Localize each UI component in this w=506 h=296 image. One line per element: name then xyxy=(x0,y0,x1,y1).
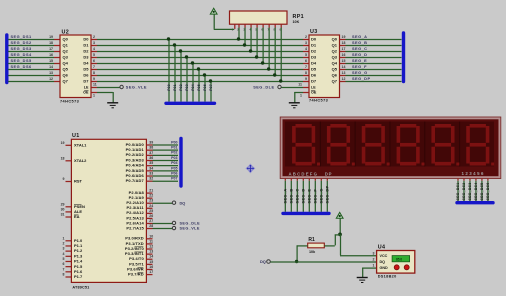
latch U3 74HC573 xyxy=(309,29,340,103)
svg-text:SEG_E: SEG_E xyxy=(306,189,311,204)
svg-text:SEG_DS5: SEG_DS5 xyxy=(480,183,484,201)
svg-text:RST: RST xyxy=(74,179,83,184)
svg-text:SEG_DS2: SEG_DS2 xyxy=(462,183,466,201)
svg-text:10k: 10k xyxy=(309,250,316,254)
svg-text:32: 32 xyxy=(149,177,153,181)
svg-text:D6: D6 xyxy=(83,73,89,78)
svg-text:8: 8 xyxy=(305,71,307,75)
wire display pin SEG_E down to bus xyxy=(306,178,311,212)
bus P0 vertical bus (right of U1) xyxy=(179,139,182,187)
svg-text:26: 26 xyxy=(149,214,153,218)
pin P1.0 (1) U1 xyxy=(63,236,83,243)
wire bus to U2 pin 13 xyxy=(8,71,60,76)
svg-text:30: 30 xyxy=(61,207,65,211)
svg-text:P05: P05 xyxy=(171,166,177,170)
pin P2.2 (23) U1 xyxy=(126,199,153,205)
svg-text:22: 22 xyxy=(149,194,153,198)
svg-text:24: 24 xyxy=(149,204,153,208)
svg-text:4: 4 xyxy=(63,252,65,256)
svg-text:Q3: Q3 xyxy=(332,55,338,60)
terminal SEG_DLE (U3) xyxy=(253,84,281,89)
svg-text:6: 6 xyxy=(305,59,307,63)
wire U3 pin 12 net SEG_DP to bus xyxy=(340,76,402,82)
svg-text:AT89C51: AT89C51 xyxy=(72,285,89,289)
wire U1 P0.3 pin 36 net P03 to bus xyxy=(126,156,178,163)
svg-text:P06: P06 xyxy=(171,171,177,175)
svg-text:12: 12 xyxy=(49,77,53,81)
wire P01 vertical from net D1 down to bus xyxy=(173,43,177,101)
bus SEG_DS vertical bus (left) xyxy=(5,35,8,83)
svg-text:D3: D3 xyxy=(83,55,89,60)
svg-text:SEG_DP: SEG_DP xyxy=(324,185,329,203)
wire U1 P0.7 pin 32 net P07 to bus xyxy=(126,177,178,184)
wire display digit pin 6 down to bus xyxy=(486,178,490,201)
svg-text:11: 11 xyxy=(93,83,97,87)
svg-text:SEG_DS6: SEG_DS6 xyxy=(11,64,32,69)
node junction VCC/R1/U4 xyxy=(338,233,342,237)
wire U3 pin 18 net SEG_B to bus xyxy=(340,40,402,46)
svg-text:1: 1 xyxy=(300,93,302,97)
svg-text:D1: D1 xyxy=(311,43,317,48)
svg-text:9: 9 xyxy=(305,77,307,81)
resistor pack RP1 10K xyxy=(230,11,304,32)
wire net D6 U2 pin 8 to U3 xyxy=(91,71,309,76)
svg-text:SEG_B: SEG_B xyxy=(288,188,293,203)
wire P04 vertical from net D4 down to bus xyxy=(191,61,195,101)
wire display pin SEG_G down to bus xyxy=(318,178,323,212)
wire U1 P0.0 pin 39 net P00 to bus xyxy=(126,140,178,147)
wire U3 pin 15 net SEG_E to bus xyxy=(340,58,402,64)
wire P06 vertical from net D6 down to bus xyxy=(203,73,207,101)
svg-text:P03: P03 xyxy=(171,156,177,160)
svg-text:8: 8 xyxy=(63,272,65,276)
svg-text:U3: U3 xyxy=(310,29,318,35)
svg-text:1: 1 xyxy=(63,236,65,240)
wire VCC node down to U4 VCC pin xyxy=(340,234,377,255)
wire RP1 pin 8 pull-up to net D6 xyxy=(273,24,276,77)
cursor crosshair (editor pointer) xyxy=(246,164,255,173)
svg-text:15: 15 xyxy=(49,59,53,63)
wire net D3 U2 pin 5 to U3 xyxy=(91,53,309,58)
svg-text:13: 13 xyxy=(49,71,53,75)
svg-text:P01: P01 xyxy=(173,84,177,91)
svg-text:17: 17 xyxy=(149,270,153,274)
svg-text:U4: U4 xyxy=(378,245,386,251)
svg-text:34: 34 xyxy=(149,166,153,170)
svg-text:XTAL1: XTAL1 xyxy=(74,142,87,147)
svg-text:2: 2 xyxy=(305,35,307,39)
svg-text:U2: U2 xyxy=(62,30,70,36)
svg-text:P00: P00 xyxy=(167,84,171,91)
wire net D5 U2 pin 7 to U3 xyxy=(91,65,309,70)
svg-text:P03: P03 xyxy=(185,84,189,91)
svg-text:P04: P04 xyxy=(191,84,195,91)
svg-text:D5: D5 xyxy=(311,67,317,72)
wire U1 P2.7 to SEG_VLE terminal xyxy=(153,228,173,230)
pin P3.5/T1 (15) U1 xyxy=(129,260,153,266)
bus below display segment pins xyxy=(283,212,329,215)
pin P3.6/WR (16) U1 xyxy=(127,265,153,271)
wire bus to U2 pin 18 net SEG_DS2 xyxy=(8,40,60,46)
svg-text:D2: D2 xyxy=(311,49,317,54)
pin P1.6 (7) U1 xyxy=(63,267,83,274)
svg-text:P02: P02 xyxy=(171,151,177,155)
svg-text:18: 18 xyxy=(61,156,65,160)
pin P1.5 (6) U1 xyxy=(63,262,83,269)
wire U3 pin 17 net SEG_C to bus xyxy=(340,46,402,52)
terminal SEG_VLE (U1) xyxy=(172,226,200,230)
svg-text:123456: 123456 xyxy=(462,171,485,176)
svg-text:28: 28 xyxy=(149,224,153,228)
svg-text:SEG_C: SEG_C xyxy=(352,46,367,51)
ground (below U2) xyxy=(107,103,118,108)
svg-text:19: 19 xyxy=(61,141,65,145)
svg-text:15: 15 xyxy=(342,59,346,63)
svg-text:Q4: Q4 xyxy=(332,61,338,66)
svg-text:U1: U1 xyxy=(72,133,80,139)
svg-text:P0.7/AD7: P0.7/AD7 xyxy=(126,178,145,183)
svg-text:3: 3 xyxy=(305,41,307,45)
svg-text:18: 18 xyxy=(342,41,346,45)
latch U2 74HC573 xyxy=(60,30,91,104)
svg-text:14: 14 xyxy=(49,65,53,69)
wire bus to U2 pin 14 net SEG_DS6 xyxy=(8,64,60,70)
svg-text:SEG_D: SEG_D xyxy=(352,52,367,57)
svg-text:RP1: RP1 xyxy=(293,14,304,20)
svg-text:SEG_DS4: SEG_DS4 xyxy=(474,183,478,201)
wire bus to U2 pin 19 net SEG_DS1 xyxy=(8,34,60,40)
pin ALE (30) U1 xyxy=(61,207,83,214)
svg-text:DS18B20: DS18B20 xyxy=(378,274,397,278)
pin P1.7 (8) U1 xyxy=(63,272,83,279)
svg-text:SEG_DS1: SEG_DS1 xyxy=(456,183,460,201)
pin P2.4 (25) U1 xyxy=(126,209,153,215)
wire P07 vertical from net D7 down to bus xyxy=(209,79,213,101)
wire net D0 U2 pin 2 to U3 xyxy=(91,35,309,40)
svg-text:39: 39 xyxy=(149,141,153,145)
svg-text:SEG_DS3: SEG_DS3 xyxy=(11,46,32,51)
wire bus to U2 pin 17 net SEG_DS3 xyxy=(8,46,60,52)
pin P1.2 (3) U1 xyxy=(63,247,83,254)
wire U1 P0.5 pin 34 net P05 to bus xyxy=(126,166,178,173)
wire U1 P0.4 pin 35 net P04 to bus xyxy=(126,161,178,168)
svg-text:Q3: Q3 xyxy=(63,55,69,60)
wire P02 vertical from net D2 down to bus xyxy=(179,49,183,101)
wire display pin SEG_B down to bus xyxy=(288,178,293,212)
wire display pin SEG_D down to bus xyxy=(300,178,305,212)
wire display pin SEG_C down to bus xyxy=(294,178,299,212)
svg-text:DQ: DQ xyxy=(380,260,386,264)
wire U3 pin 14 net SEG_F to bus xyxy=(340,64,402,70)
ground (below U4) xyxy=(357,278,368,283)
svg-text:D3: D3 xyxy=(311,55,317,60)
svg-text:R1: R1 xyxy=(308,237,315,243)
power VCC arrow (RP1) xyxy=(210,8,217,29)
pin P2.6 (27) U1 xyxy=(126,219,153,225)
svg-text:4: 4 xyxy=(305,47,307,51)
svg-text:VCC: VCC xyxy=(380,254,388,258)
wire U3 pin 19 net SEG_A to bus xyxy=(340,34,402,40)
wire RP1 pin 6 pull-up to net D4 xyxy=(261,24,264,64)
svg-text:5: 5 xyxy=(63,257,65,261)
digit 3 ghost segments xyxy=(362,124,390,166)
svg-text:D4: D4 xyxy=(83,61,89,66)
svg-text:P02: P02 xyxy=(179,84,183,91)
svg-text:85.0: 85.0 xyxy=(396,257,402,261)
svg-text:P1.7: P1.7 xyxy=(74,274,83,279)
pin P3.0/RXD (10) U1 xyxy=(125,234,153,240)
svg-text:SEG_DS1: SEG_DS1 xyxy=(11,34,32,39)
wire RP1 pin 3 pull-up to net D1 xyxy=(243,24,246,47)
svg-text:5: 5 xyxy=(305,53,307,57)
wire display digit pin 3 down to bus xyxy=(468,178,472,201)
svg-text:17: 17 xyxy=(49,47,53,51)
wire RP1 pin 1 to VCC arrow xyxy=(214,24,235,29)
svg-text:4: 4 xyxy=(93,47,95,51)
svg-text:Q0: Q0 xyxy=(332,37,338,42)
svg-text:2: 2 xyxy=(63,241,65,245)
power VCC arrow (R1/U4) xyxy=(336,212,343,234)
svg-text:D0: D0 xyxy=(311,37,317,42)
wire RP1 pin 9 pull-up to net D7 xyxy=(279,24,282,83)
wire RP1 pin 2 pull-up to net D0 xyxy=(237,24,240,41)
svg-text:SEG_B: SEG_B xyxy=(352,40,367,45)
wire U1 P0.6 pin 33 net P06 to bus xyxy=(126,171,178,178)
wire net D1 U2 pin 3 to U3 xyxy=(91,41,309,46)
svg-text:14: 14 xyxy=(342,65,346,69)
wire display pin SEG_A down to bus xyxy=(282,178,287,212)
pin P1.4 (5) U1 xyxy=(63,257,83,264)
digit 5 ghost segments xyxy=(431,124,459,166)
svg-text:D1: D1 xyxy=(83,43,89,48)
svg-text:2: 2 xyxy=(93,35,95,39)
wire display digit pin 5 down to bus xyxy=(480,178,484,201)
wire P00 vertical from net D0 down to bus xyxy=(167,37,171,101)
svg-text:29: 29 xyxy=(61,202,65,206)
svg-text:21: 21 xyxy=(149,189,153,193)
svg-text:74HC573: 74HC573 xyxy=(309,99,328,103)
pin P3.3/INT1 (13) U1 xyxy=(125,250,153,256)
wire U4 GND pin to ground xyxy=(362,268,376,278)
svg-text:LE: LE xyxy=(311,86,316,90)
pin PSEN (29) U1 xyxy=(61,202,85,209)
svg-text:9: 9 xyxy=(63,177,65,181)
pin P2.0 (21) U1 xyxy=(129,189,154,195)
svg-text:14: 14 xyxy=(149,255,153,259)
svg-text:1: 1 xyxy=(93,93,95,97)
digit 2 ghost segments xyxy=(327,124,355,166)
pin P3.2/INT0 (12) U1 xyxy=(125,245,153,251)
svg-text:Q1: Q1 xyxy=(63,43,69,48)
svg-text:18: 18 xyxy=(49,41,53,45)
bus SEG vertical bus (right of U3) xyxy=(402,33,405,82)
wire U3 OE pin 1 to ground xyxy=(294,92,309,103)
wire SEG_DLE terminal to U3 LE pin 11 xyxy=(281,83,309,88)
resistor R1 10k xyxy=(308,237,325,254)
wire bus to U2 pin 15 net SEG_DS5 xyxy=(8,58,60,64)
svg-text:Q4: Q4 xyxy=(63,61,69,66)
wire RP1 pin 7 pull-up to net D5 xyxy=(267,24,270,71)
svg-text:27: 27 xyxy=(149,219,153,223)
svg-text:17: 17 xyxy=(342,47,346,51)
wire DQ terminal to U4 DQ pin xyxy=(270,261,376,263)
pin P3.7/RD (17) U1 xyxy=(128,270,153,276)
pin P2.1 (22) U1 xyxy=(129,194,154,200)
pin RST (9) U1 xyxy=(63,177,83,184)
pin P2.3 (24) U1 xyxy=(127,204,154,210)
svg-text:3: 3 xyxy=(63,247,65,251)
wire display pin SEG_DP down to bus xyxy=(324,178,329,212)
svg-text:Q2: Q2 xyxy=(332,49,338,54)
svg-text:15: 15 xyxy=(149,260,153,264)
bus horizontal (below diagonals) xyxy=(166,102,215,105)
svg-text:OE: OE xyxy=(83,91,89,95)
svg-text:SEG_G: SEG_G xyxy=(352,70,368,75)
svg-text:D2: D2 xyxy=(83,49,89,54)
svg-text:31: 31 xyxy=(61,213,65,217)
svg-text:D5: D5 xyxy=(83,67,89,72)
pin XTAL2 (18) U1 xyxy=(61,156,88,163)
digit 4 ghost segments xyxy=(397,124,425,166)
svg-text:12: 12 xyxy=(342,77,346,81)
pin XTAL1 (19) U1 xyxy=(61,141,88,148)
svg-text:D6: D6 xyxy=(311,73,317,78)
wire display digit pin 2 down to bus xyxy=(462,178,466,201)
svg-text:19: 19 xyxy=(49,35,53,39)
svg-text:8: 8 xyxy=(93,71,95,75)
wire bus to U2 pin 16 net SEG_DS4 xyxy=(8,52,60,58)
wire U2 OE pin 1 to ground xyxy=(91,92,113,103)
pin P3.4/T0 (14) U1 xyxy=(129,255,153,261)
svg-text:SEG_DS5: SEG_DS5 xyxy=(11,58,32,63)
svg-text:12: 12 xyxy=(149,245,153,249)
bus below display digit pins xyxy=(457,201,493,204)
svg-text:P04: P04 xyxy=(171,161,177,165)
svg-text:SEG_G: SEG_G xyxy=(318,188,323,203)
svg-text:SEG_E: SEG_E xyxy=(352,58,367,63)
svg-text:D7: D7 xyxy=(83,79,89,84)
pin P2.7 (28) U1 xyxy=(126,224,153,230)
svg-text:Q1: Q1 xyxy=(332,43,338,48)
svg-text:D0: D0 xyxy=(83,37,89,42)
svg-text:11: 11 xyxy=(298,83,302,87)
wire RP1 pin 5 pull-up to net D3 xyxy=(255,24,258,59)
svg-text:10K: 10K xyxy=(293,20,300,24)
svg-text:D4: D4 xyxy=(311,61,317,66)
svg-text:P2.7/A15: P2.7/A15 xyxy=(126,225,144,230)
svg-text:P06: P06 xyxy=(203,84,207,91)
svg-text:Q6: Q6 xyxy=(332,73,338,78)
wire U2 LE pin 11 to SEG_VLE terminal xyxy=(91,83,120,88)
svg-text:74HC573: 74HC573 xyxy=(60,99,79,103)
svg-text:DP: DP xyxy=(325,172,332,177)
svg-text:SEG_A: SEG_A xyxy=(352,34,367,39)
svg-text:SEG_DS4: SEG_DS4 xyxy=(11,52,32,57)
svg-text:36: 36 xyxy=(149,156,153,160)
display DS1 6-digit 7-segment module xyxy=(280,117,501,179)
svg-text:1: 1 xyxy=(373,264,375,268)
svg-text:DQ: DQ xyxy=(180,200,186,205)
node junction R1/DQ xyxy=(295,260,298,263)
svg-text:SEG_D: SEG_D xyxy=(300,188,305,203)
svg-text:Q2: Q2 xyxy=(63,49,69,54)
svg-text:Q6: Q6 xyxy=(63,73,69,78)
svg-text:10: 10 xyxy=(149,234,153,238)
svg-text:13: 13 xyxy=(149,250,153,254)
svg-text:16: 16 xyxy=(149,265,153,269)
svg-text:6: 6 xyxy=(93,59,95,63)
svg-text:SEG_DP: SEG_DP xyxy=(352,76,371,81)
svg-text:SEG_DS6: SEG_DS6 xyxy=(486,183,490,201)
wire U1 P0.1 pin 38 net P01 to bus xyxy=(126,146,178,153)
svg-text:GND: GND xyxy=(380,266,389,270)
svg-text:SEG_C: SEG_C xyxy=(294,188,299,203)
svg-text:P01: P01 xyxy=(171,146,177,150)
wire P05 vertical from net D5 down to bus xyxy=(197,67,201,101)
svg-text:LE: LE xyxy=(84,86,89,90)
pin P1.3 (4) U1 xyxy=(63,252,83,259)
svg-text:Q5: Q5 xyxy=(63,67,69,72)
svg-text:3: 3 xyxy=(93,41,95,45)
svg-text:11: 11 xyxy=(149,239,153,243)
wire P03 vertical from net D3 down to bus xyxy=(185,55,189,101)
svg-text:23: 23 xyxy=(149,199,153,203)
wire net D7 U2 pin 9 to U3 xyxy=(91,77,309,82)
digit 1 ghost segments xyxy=(292,124,320,166)
wire display digit pin 1 down to bus xyxy=(456,178,460,201)
svg-text:SEG_DLE: SEG_DLE xyxy=(253,84,274,89)
svg-text:35: 35 xyxy=(149,161,153,165)
pin P1.1 (2) U1 xyxy=(63,241,83,248)
sensor U4 DS18B20 xyxy=(373,245,415,279)
wire net D2 U2 pin 4 to U3 xyxy=(91,47,309,52)
wire bus to U2 pin 12 xyxy=(8,77,60,82)
wire R1 left lead down to DQ net xyxy=(297,245,308,261)
svg-text:XTAL2: XTAL2 xyxy=(74,158,87,163)
svg-text:3: 3 xyxy=(373,251,375,255)
svg-text:16: 16 xyxy=(49,53,53,57)
svg-text:37: 37 xyxy=(149,151,153,155)
svg-text:ABCDEFG: ABCDEFG xyxy=(289,172,319,177)
terminal DQ (U1) xyxy=(172,200,185,205)
wire net D4 U2 pin 6 to U3 xyxy=(91,59,309,64)
svg-text:6: 6 xyxy=(63,262,65,266)
svg-text:38: 38 xyxy=(149,146,153,150)
svg-text:19: 19 xyxy=(342,35,346,39)
wire display pin SEG_F down to bus xyxy=(312,178,317,212)
svg-text:Q5: Q5 xyxy=(332,67,338,72)
svg-text:OE: OE xyxy=(311,91,317,95)
terminal SEG_DLE (U1) xyxy=(172,221,200,225)
terminal SEG_VLE (U2) xyxy=(120,84,147,89)
svg-text:SEG_F: SEG_F xyxy=(352,64,367,69)
svg-text:SEG_DS3: SEG_DS3 xyxy=(468,183,472,201)
svg-text:D7: D7 xyxy=(311,79,317,84)
svg-text:16: 16 xyxy=(342,53,346,57)
svg-text:SEG_DLE: SEG_DLE xyxy=(180,221,201,225)
pin P2.5 (26) U1 xyxy=(126,214,153,220)
svg-text:DQ: DQ xyxy=(260,259,266,264)
svg-text:P07: P07 xyxy=(209,84,213,91)
terminal DQ (bottom) xyxy=(260,259,270,264)
svg-text:2: 2 xyxy=(373,258,375,262)
wire U1 P0.2 pin 37 net P02 to bus xyxy=(126,151,178,158)
svg-text:9: 9 xyxy=(93,77,95,81)
svg-text:7: 7 xyxy=(93,65,95,69)
svg-text:Q7: Q7 xyxy=(63,79,69,84)
svg-text:5: 5 xyxy=(93,53,95,57)
ground (below U3) xyxy=(289,103,300,108)
